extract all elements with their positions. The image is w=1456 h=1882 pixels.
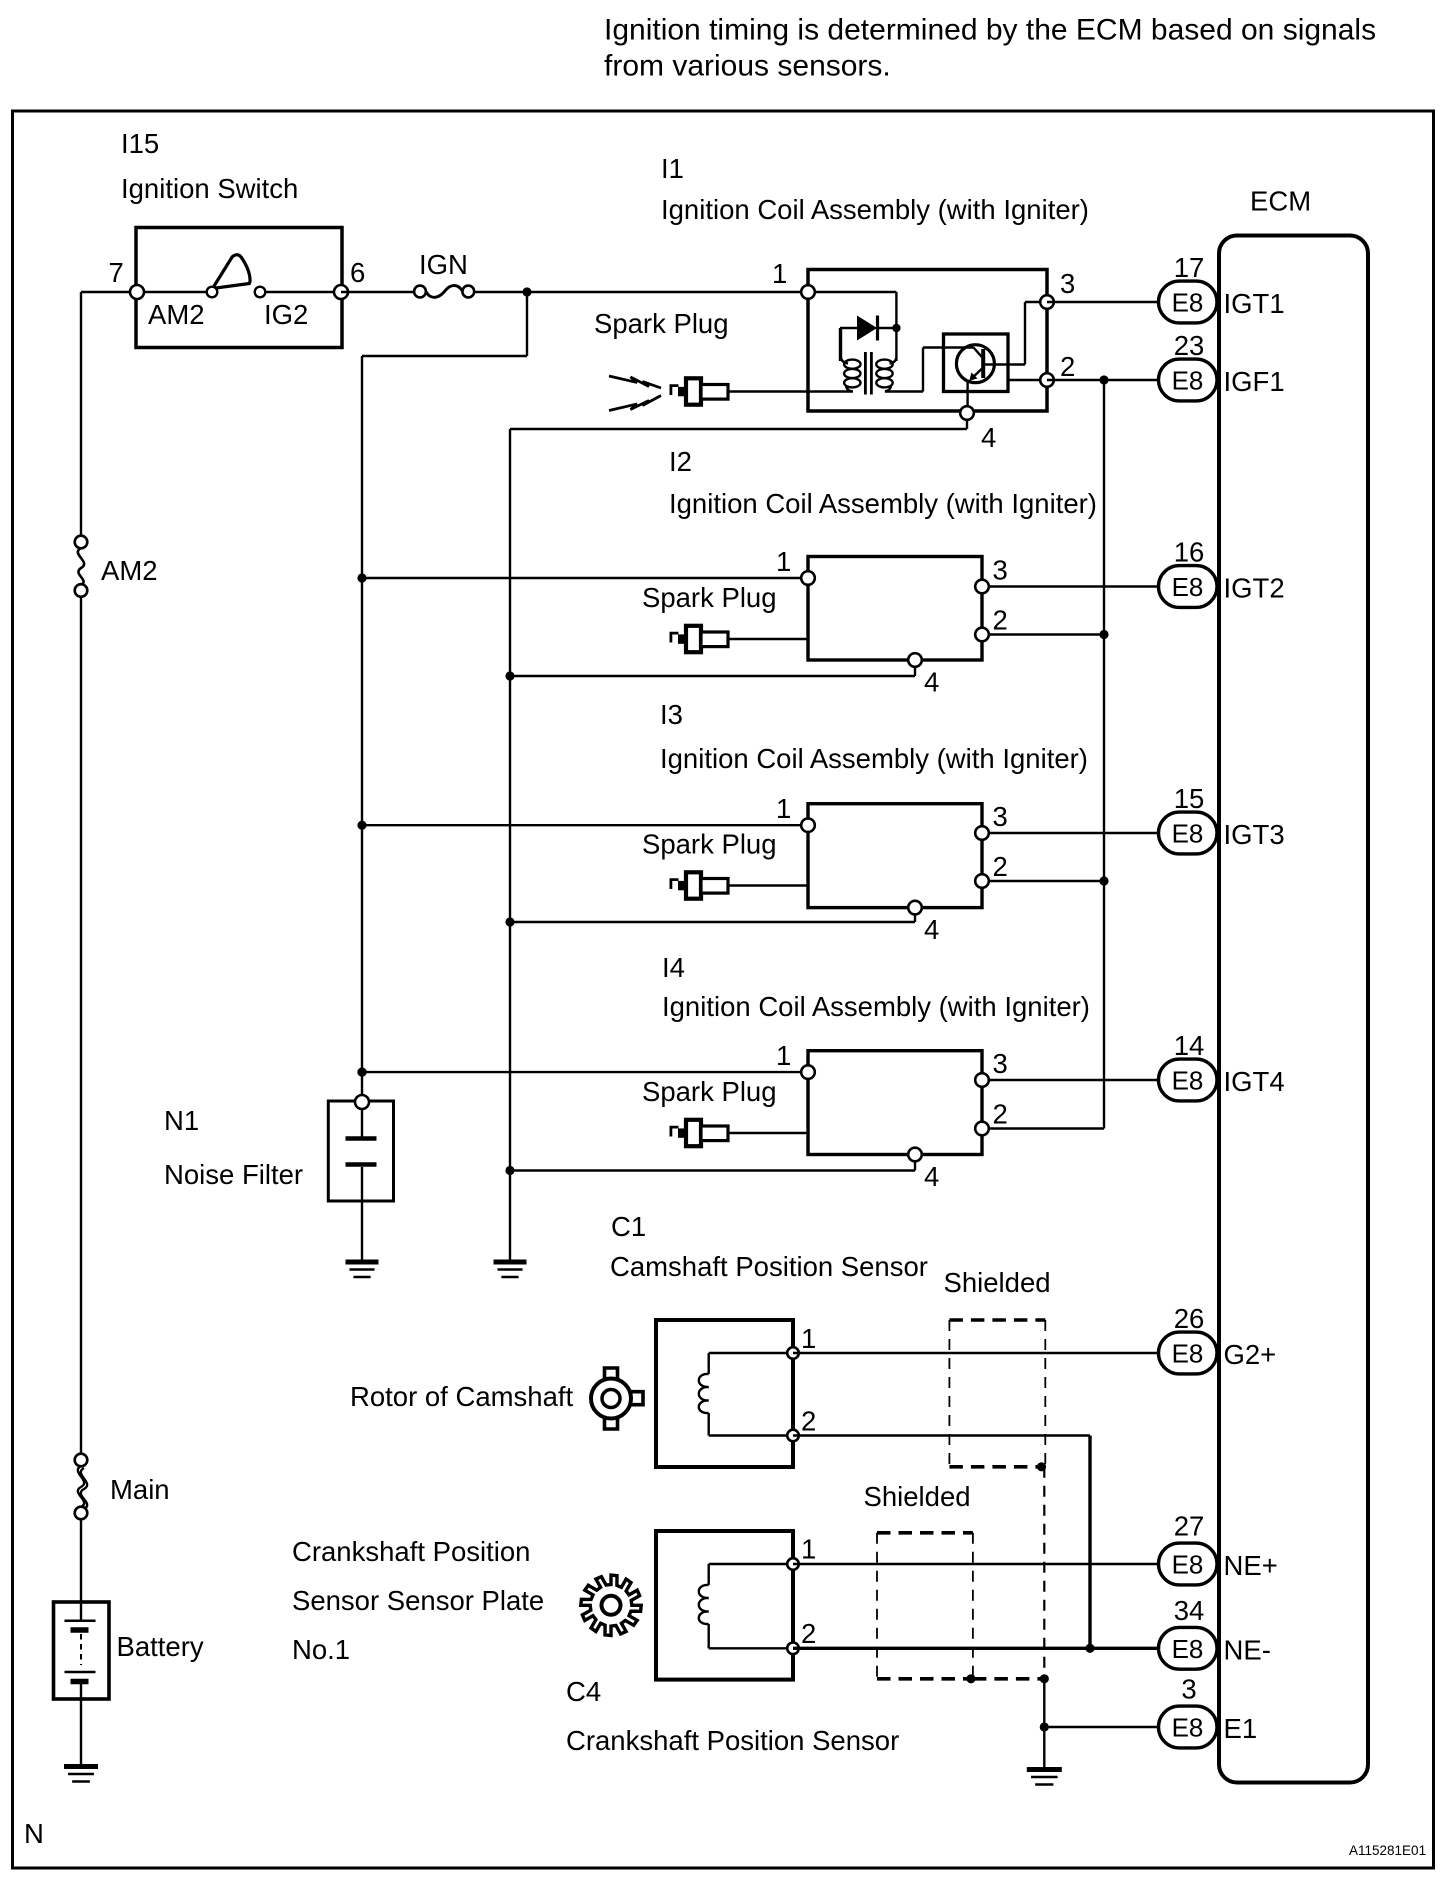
wire: power bus to I3 pin 1 <box>362 824 808 826</box>
spark plug I4 <box>671 1120 728 1146</box>
ECM box <box>1219 236 1368 1783</box>
svg-text:1: 1 <box>772 258 787 289</box>
I3 pin 1 terminal <box>801 818 815 832</box>
shield box (cam) <box>949 1318 1045 1322</box>
node: IGF1 junction <box>1099 375 1108 384</box>
switch lever <box>213 255 251 289</box>
ignition coil assembly I1 box <box>808 270 1047 412</box>
wire: switch internal AM2 side <box>137 291 207 293</box>
wire: I2 pin 4 to ground bus <box>914 666 916 676</box>
diode D in I1 <box>878 327 897 329</box>
svg-text:NE-: NE- <box>1224 1634 1271 1665</box>
svg-text:E1: E1 <box>1224 1713 1258 1744</box>
pickup coil in C4 <box>709 1563 786 1565</box>
wire: to ECM E1 <box>1044 1726 1165 1728</box>
wire: Main link to battery <box>80 1519 82 1602</box>
svg-text:2: 2 <box>993 1099 1008 1130</box>
svg-text:Ignition timing is determined: Ignition timing is determined by the ECM… <box>604 14 1376 47</box>
wire: pin6 to IGN fuse <box>341 291 415 293</box>
svg-text:2: 2 <box>801 1618 816 1649</box>
svg-text:E8: E8 <box>1172 1713 1204 1743</box>
svg-text:Crankshaft Position: Crankshaft Position <box>292 1536 530 1567</box>
node: shield drain junction (cam) <box>1037 1462 1046 1471</box>
svg-text:4: 4 <box>924 1161 939 1192</box>
I3 pin 2 terminal <box>975 874 989 888</box>
I3 pin 3 terminal <box>975 826 989 840</box>
svg-text:3: 3 <box>993 555 1008 586</box>
svg-text:Spark Plug: Spark Plug <box>642 829 777 860</box>
connector E8 pin 14 (IGT4) <box>1159 1059 1218 1101</box>
ground at shield drain <box>1027 1767 1062 1772</box>
wire: spark plug to I4 <box>728 1132 809 1134</box>
I4 pin 4 terminal <box>908 1148 922 1162</box>
ground below battery <box>64 1764 98 1769</box>
wire: primary to igniter base <box>885 390 923 392</box>
svg-text:2: 2 <box>1060 351 1075 382</box>
svg-text:Rotor of Camshaft: Rotor of Camshaft <box>350 1381 574 1412</box>
svg-text:3: 3 <box>1181 1674 1196 1705</box>
node: cam return joins NE- <box>1085 1644 1094 1653</box>
svg-text:Spark Plug: Spark Plug <box>642 582 777 613</box>
svg-text:I1: I1 <box>661 153 684 184</box>
shield drain (cam) <box>1043 1467 1045 1679</box>
wire: power bus to I2 pin 1 <box>362 577 808 579</box>
svg-text:34: 34 <box>1174 1595 1205 1626</box>
svg-text:E8: E8 <box>1172 819 1204 849</box>
I1 pin 4 terminal <box>960 406 974 420</box>
node: power bus junction to I4/noise filter <box>357 1068 366 1077</box>
igniter module box in I1 <box>944 334 1009 392</box>
svg-text:I15: I15 <box>121 128 159 159</box>
svg-text:IGT2: IGT2 <box>1224 573 1285 604</box>
switch contact terminals <box>207 287 218 298</box>
svg-text:2: 2 <box>993 605 1008 636</box>
fuse AM2 <box>78 548 84 585</box>
capacitor C in noise filter <box>361 1109 363 1137</box>
node: ground bus junction at I4 <box>505 1166 514 1175</box>
svg-text:1: 1 <box>776 546 791 577</box>
wire: collector to pin 3 <box>983 363 1025 365</box>
svg-text:4: 4 <box>924 914 939 945</box>
svg-text:Ignition Coil Assembly (with I: Ignition Coil Assembly (with Igniter) <box>661 194 1089 225</box>
svg-text:AM2: AM2 <box>101 555 158 586</box>
svg-text:G2+: G2+ <box>1224 1339 1277 1370</box>
I2 pin 4 terminal <box>908 653 922 667</box>
I1 pin 1 terminal <box>801 285 815 299</box>
connector E8 pin 34 (NE-) <box>1159 1627 1218 1669</box>
svg-text:Battery: Battery <box>117 1631 204 1662</box>
ground below noise filter <box>346 1260 379 1265</box>
connector E8 pin 23 (IGF1) <box>1159 359 1218 401</box>
transformer core <box>864 352 867 395</box>
crankshaft position sensor box <box>656 1531 793 1680</box>
ground bus down to ground point <box>509 429 511 1262</box>
I2 pin 3 terminal <box>975 580 989 594</box>
shield box (crank) <box>877 1531 973 1535</box>
svg-text:Sensor Sensor Plate: Sensor Sensor Plate <box>292 1585 544 1616</box>
C1 pin 2 terminal <box>787 1430 799 1442</box>
node: IGF bus junction at I3 <box>1099 876 1108 885</box>
svg-text:IGN: IGN <box>419 249 468 280</box>
ignition coil assembly I2 box <box>808 557 982 661</box>
svg-text:I2: I2 <box>669 446 692 477</box>
connector E8 pin 27 (NE+) <box>1159 1543 1218 1585</box>
svg-text:E8: E8 <box>1172 1339 1204 1369</box>
svg-text:2: 2 <box>993 851 1008 882</box>
transformer T primary winding <box>840 328 842 360</box>
I1 pin 3 terminal <box>1040 295 1054 309</box>
connector E8 pin 26 (G2+) <box>1159 1332 1218 1374</box>
wire: I3 pin 3 to ECM <box>982 832 1165 834</box>
svg-text:C4: C4 <box>566 1676 601 1707</box>
noise filter terminal <box>355 1095 369 1109</box>
node: ground bus junction at I3 <box>505 917 514 926</box>
svg-text:Main: Main <box>110 1474 170 1505</box>
I1 pin 2 terminal <box>1040 373 1054 387</box>
node: IGF bus junction at I2 <box>1099 630 1108 639</box>
C4 pin 2 terminal <box>787 1643 799 1655</box>
svg-text:No.1: No.1 <box>292 1634 350 1665</box>
svg-text:Spark Plug: Spark Plug <box>642 1076 777 1107</box>
C4 pin 1 terminal <box>787 1558 799 1570</box>
svg-text:N1: N1 <box>164 1105 199 1136</box>
fusible link Main <box>78 1466 84 1507</box>
svg-text:E8: E8 <box>1172 1634 1204 1664</box>
svg-text:Shielded: Shielded <box>944 1267 1051 1298</box>
ignition coil assembly I4 box <box>808 1051 982 1155</box>
svg-text:14: 14 <box>1174 1030 1205 1061</box>
node: power bus junction for I4 <box>357 1068 366 1077</box>
svg-text:16: 16 <box>1174 537 1205 568</box>
svg-text:I3: I3 <box>660 699 683 730</box>
connector E8 pin 16 (IGT2) <box>1159 566 1218 608</box>
svg-text:Ignition Coil Assembly (with I: Ignition Coil Assembly (with Igniter) <box>660 743 1088 774</box>
IGF feedback bus <box>1103 380 1105 1129</box>
rotor symbol <box>591 1379 631 1419</box>
svg-text:E8: E8 <box>1172 572 1204 602</box>
wire: C1 pin 2 return <box>793 1434 1090 1436</box>
svg-text:23: 23 <box>1174 330 1205 361</box>
connector E8 pin 3 (E1) <box>1159 1706 1218 1748</box>
svg-text:26: 26 <box>1174 1303 1205 1334</box>
wire: I3 pin 2 to IGF bus <box>982 880 1104 882</box>
svg-text:IGT4: IGT4 <box>1224 1066 1285 1097</box>
svg-text:A115281E01: A115281E01 <box>1349 1843 1426 1858</box>
wire: battery feed from switch pin 7 down the left side <box>81 291 137 293</box>
svg-text:IGT3: IGT3 <box>1224 819 1285 850</box>
I4 pin 2 terminal <box>975 1122 989 1136</box>
svg-text:Ignition Coil Assembly (with I: Ignition Coil Assembly (with Igniter) <box>662 991 1090 1022</box>
ground at coil ground bus <box>494 1260 527 1265</box>
svg-text:AM2: AM2 <box>148 299 205 330</box>
svg-text:4: 4 <box>981 422 996 453</box>
node: shield drain meet <box>1040 1674 1049 1683</box>
ignition switch I15 box <box>136 228 342 348</box>
C1 pin 1 terminal <box>787 1347 799 1359</box>
wire: IGN fuse to coil I1 pin 1 <box>473 291 808 293</box>
wire: spark plug 1 to I1 <box>728 390 809 392</box>
wire: I2 pin 2 to IGF bus <box>982 633 1104 635</box>
svg-text:3: 3 <box>993 801 1008 832</box>
wire: I4 pin 4 to ground bus <box>914 1161 916 1171</box>
wire: shield drains to ground <box>1043 1679 1045 1769</box>
wire: I1 pin 4 to ground bus <box>966 419 968 429</box>
wire: I1 internal from pin 1 <box>808 291 896 293</box>
wire: switch internal IG2 side <box>265 291 341 293</box>
svg-text:27: 27 <box>1174 1511 1205 1542</box>
svg-text:ECM: ECM <box>1250 186 1311 217</box>
svg-text:3: 3 <box>1060 268 1075 299</box>
I2 pin 2 terminal <box>975 628 989 642</box>
svg-text:C1: C1 <box>611 1211 646 1242</box>
wire: secondary to spark plug lead inside I1 <box>808 390 853 392</box>
sensor plate gear symbol <box>581 1575 641 1635</box>
svg-text:IG2: IG2 <box>264 299 308 330</box>
svg-text:4: 4 <box>924 667 939 698</box>
svg-text:IGF1: IGF1 <box>1224 366 1285 397</box>
svg-text:2: 2 <box>801 1406 816 1437</box>
svg-text:Camshaft Position Sensor: Camshaft Position Sensor <box>610 1251 928 1282</box>
spark plug 1 <box>609 376 661 388</box>
svg-text:Noise Filter: Noise Filter <box>164 1159 303 1190</box>
spark plug I3 <box>671 872 728 898</box>
ignition coil assembly I3 box <box>808 804 982 908</box>
shield drain (crank) <box>973 1677 1044 1681</box>
svg-text:E8: E8 <box>1172 1550 1204 1580</box>
pin 7 terminal <box>130 285 144 299</box>
svg-text:IGT1: IGT1 <box>1224 288 1285 319</box>
I4 pin 1 terminal <box>801 1065 815 1079</box>
svg-text:Crankshaft Position Sensor: Crankshaft Position Sensor <box>566 1725 899 1756</box>
wire: power bus to I4 pin 1 <box>362 1071 808 1073</box>
connector E8 pin 17 (IGT1) <box>1159 281 1218 323</box>
transistor Q in igniter <box>956 345 994 383</box>
node: E1 junction <box>1040 1722 1049 1731</box>
wire: C4 pin 2 to ECM NE- <box>793 1647 1165 1650</box>
spark plug I2 <box>671 626 728 652</box>
svg-text:Spark Plug: Spark Plug <box>594 308 729 339</box>
transformer T secondary winding <box>876 360 892 369</box>
I4 pin 3 terminal <box>975 1073 989 1087</box>
svg-text:17: 17 <box>1174 252 1205 283</box>
wire: I3 pin 4 to ground bus <box>914 914 916 922</box>
wire: I4 pin 2 to IGF bus <box>982 1127 1104 1129</box>
wire: spark plug to I3 <box>728 884 809 886</box>
wire: C1 pin 1 to ECM G2+ <box>793 1352 1165 1354</box>
svg-text:from various sensors.: from various sensors. <box>604 50 891 83</box>
wire: spark plug to I2 <box>728 638 809 640</box>
wire: I1 pin 3 to ECM IGT1 <box>1047 301 1165 303</box>
svg-text:Ignition Coil Assembly (with I: Ignition Coil Assembly (with Igniter) <box>669 488 1097 519</box>
I3 pin 4 terminal <box>908 901 922 915</box>
svg-text:I4: I4 <box>662 952 685 983</box>
svg-text:6: 6 <box>350 257 365 288</box>
connector E8 pin 15 (IGT3) <box>1159 812 1218 854</box>
node: junction at IGN output <box>522 287 531 296</box>
node: power bus junction for I3 <box>357 821 366 830</box>
node: shield junction (crank) <box>966 1674 975 1683</box>
wire: I1 pin 2 to ECM IGF1 <box>1047 379 1165 381</box>
svg-text:Shielded: Shielded <box>864 1481 971 1512</box>
node: power bus junction for I2 <box>357 573 366 582</box>
node: ground bus junction at I2 <box>505 671 514 680</box>
wire: AM2 fuse to Main fusible link <box>80 597 82 1455</box>
svg-text:1: 1 <box>776 1040 791 1071</box>
wire: C4 pin 1 to ECM NE+ <box>793 1563 1165 1565</box>
svg-text:N: N <box>24 1818 44 1849</box>
wire: I2 pin 3 to ECM <box>982 585 1165 587</box>
svg-text:1: 1 <box>801 1534 816 1565</box>
node: diode cathode junction <box>892 324 900 332</box>
svg-text:NE+: NE+ <box>1224 1550 1278 1581</box>
svg-text:1: 1 <box>801 1323 816 1354</box>
pickup coil in C1 <box>709 1352 786 1354</box>
svg-text:Ignition Switch: Ignition Switch <box>121 173 298 204</box>
svg-text:15: 15 <box>1174 783 1205 814</box>
svg-text:E8: E8 <box>1172 1066 1204 1096</box>
pin 6 terminal <box>334 285 348 299</box>
noise filter N1 box <box>328 1101 393 1201</box>
battery <box>54 1602 110 1699</box>
svg-text:7: 7 <box>109 257 124 288</box>
svg-text:1: 1 <box>776 793 791 824</box>
wire: I4 pin 3 to ECM <box>982 1079 1165 1081</box>
wire: power bus drop to coils I2-I4 and noise filter <box>526 292 528 356</box>
svg-text:E8: E8 <box>1172 366 1204 396</box>
svg-text:3: 3 <box>993 1048 1008 1079</box>
I2 pin 1 terminal <box>801 571 815 585</box>
svg-text:E8: E8 <box>1172 288 1204 318</box>
wire: igniter to pin 2 <box>1008 379 1047 381</box>
camshaft position sensor box <box>656 1320 793 1467</box>
